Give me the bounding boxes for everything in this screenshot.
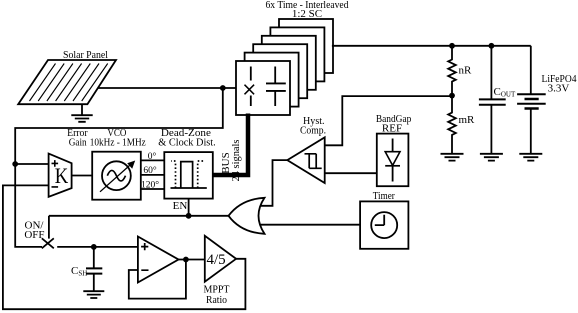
junction node buffer output (183, 257, 189, 263)
svg-text:Ratio: Ratio (206, 294, 227, 306)
bus label (220, 140, 242, 182)
svg-text:0°: 0° (148, 151, 157, 162)
svg-text:Comp.: Comp. (300, 124, 326, 136)
svg-text:OFF: OFF (24, 229, 44, 241)
svg-text:K: K (55, 163, 69, 188)
junction node VOUT at COUT (489, 43, 495, 49)
svg-text:Gain: Gain (69, 136, 87, 148)
resistor nR (448, 46, 456, 96)
ground under battery (519, 154, 542, 161)
dead-zone and clock distribution box U11 (164, 152, 213, 199)
op-amp input polarity marks (141, 243, 148, 270)
capacitor COUT (479, 46, 506, 154)
op-amp U7 unity buffer (138, 237, 179, 283)
error amplifier U9 K (49, 154, 72, 197)
svg-text:Timer: Timer (373, 190, 395, 202)
wire SC output rail (332, 45, 531, 47)
wire comparator - input to bandgap (325, 172, 377, 174)
phase labels (141, 151, 159, 191)
flying capacitor inside SC cell (266, 67, 286, 107)
svg-text:& Clock Dist.: & Clock Dist. (158, 136, 216, 148)
wire feedback loop of buffer (129, 260, 186, 299)
svg-text:3.3V: 3.3V (548, 83, 570, 95)
svg-text:60°: 60° (143, 165, 157, 176)
solar panel PV1 (18, 60, 116, 104)
wire OR gate output / EN line (49, 215, 229, 217)
svg-text:Solar Panel: Solar Panel (63, 49, 108, 61)
ground under COUT (480, 154, 503, 161)
switch SW1 ON/OFF (42, 216, 138, 249)
or gate U6 (229, 198, 265, 234)
capacitor CSH (86, 247, 102, 291)
timer U5 (360, 201, 408, 248)
ground under solar panel (71, 104, 92, 122)
wire node B to error gain + input (15, 163, 48, 165)
wire feedback divider tap to comparator (325, 96, 452, 145)
1:2 SC converter stack U2 (236, 19, 333, 115)
bandgap reference U4 (377, 134, 409, 187)
ground under CSH (83, 291, 104, 298)
svg-text:24 signals: 24 signals (230, 140, 242, 182)
svg-text:REF: REF (382, 122, 402, 134)
wire comparator output to OR input (259, 160, 287, 206)
junction node EN line (186, 213, 192, 219)
svg-text:nR: nR (459, 65, 473, 77)
svg-text:10kHz - 1MHz: 10kHz - 1MHz (90, 136, 146, 148)
svg-text:4/5: 4/5 (207, 252, 226, 268)
vco U10 (92, 152, 141, 200)
wire VCO phase outputs to dead-zone (141, 160, 165, 189)
ground under mR (441, 154, 464, 161)
wire 4/5 output return loop to error amp - input (3, 185, 246, 309)
junction node VOUT at nR (449, 43, 455, 49)
wire panel output to SC input (97, 87, 237, 89)
junction node B (sense to error amp) (12, 161, 18, 167)
wire EN stub from dead-zone box (188, 199, 190, 216)
amplifier U8 4/5 MPPT ratio (205, 236, 236, 282)
hysteretic comparator U3 (287, 137, 324, 183)
svg-text:120°: 120° (141, 179, 159, 190)
wire error amp output to VCO (72, 175, 93, 177)
wire op-amp output to 4/5 (179, 259, 205, 261)
wire timer to OR input (259, 224, 361, 226)
wire sense line from node A down-left to error amp and switch (15, 88, 223, 247)
svg-text:mR: mR (459, 114, 476, 126)
resistor mR (448, 96, 456, 154)
bus wire 24 signals (213, 114, 248, 176)
switch inside SC cell (245, 67, 255, 107)
battery BT1 LiFePO4 (517, 46, 546, 154)
svg-text:1:2 SC: 1:2 SC (292, 8, 322, 20)
hysteresis glyph (305, 154, 322, 169)
junction node A (panel/SC) (220, 85, 226, 91)
junction node CSH (91, 244, 97, 250)
svg-text:EN: EN (173, 200, 188, 212)
junction node divider tap (449, 93, 455, 99)
